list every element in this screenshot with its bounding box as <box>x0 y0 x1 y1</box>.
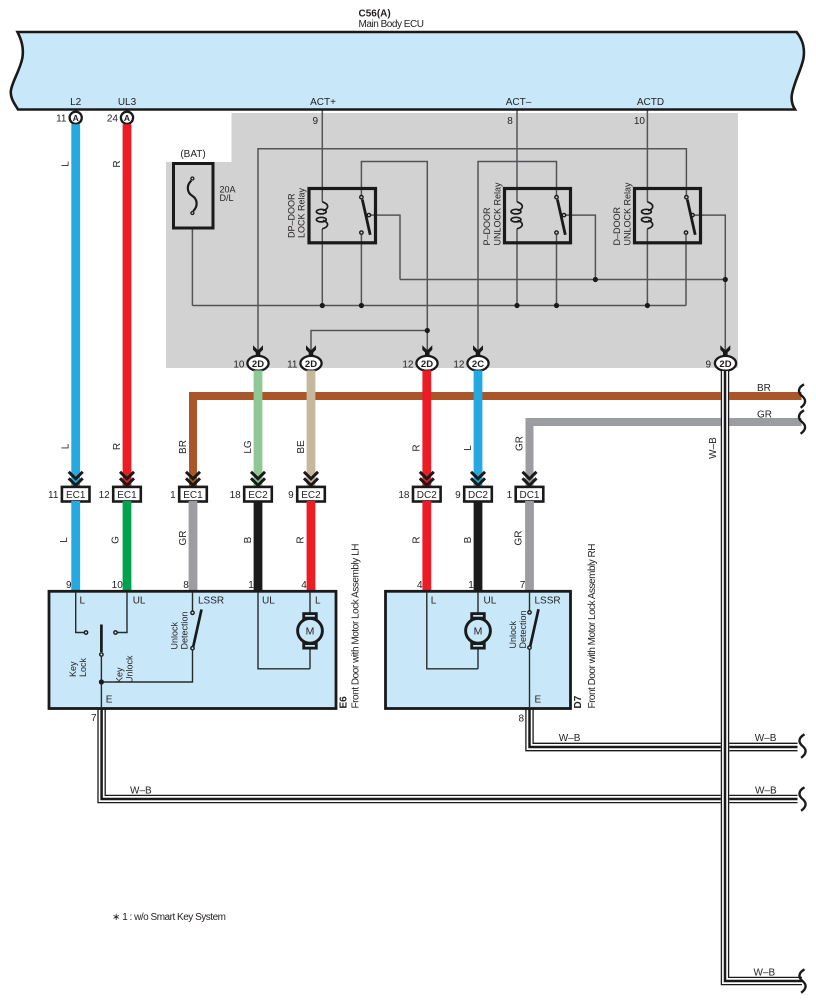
wire R red lower right <box>422 501 431 592</box>
svg-text:BE: BE <box>296 440 307 454</box>
wire G green lower <box>123 501 132 592</box>
svg-text:W–B: W–B <box>708 437 719 459</box>
wire LG (10 2D to EC2) <box>254 370 263 487</box>
arrow EC1 pin12 <box>120 472 134 486</box>
svg-text:LOCK Relay: LOCK Relay <box>296 187 306 238</box>
connector A circle pin 24 <box>121 112 133 124</box>
wire R red (12 2D to DC2) <box>422 370 431 487</box>
svg-text:R: R <box>112 160 123 167</box>
svg-text:DC1: DC1 <box>519 490 539 501</box>
svg-text:UL3: UL3 <box>118 97 137 108</box>
svg-text:DC2: DC2 <box>468 490 488 501</box>
wire DP bottom contact to battery bus <box>360 235 362 306</box>
svg-text:GR: GR <box>514 531 525 546</box>
relay P fixed contact top <box>555 196 558 199</box>
svg-text:18: 18 <box>398 490 410 501</box>
motor M D7 <box>466 618 491 643</box>
svg-text:A: A <box>73 113 79 123</box>
svg-text:M: M <box>306 626 315 638</box>
svg-text:DP–DOOR: DP–DOOR <box>287 193 297 238</box>
svg-text:W–B: W–B <box>755 733 777 744</box>
motor M E6 <box>298 618 323 643</box>
svg-text:EC1: EC1 <box>117 490 137 501</box>
svg-text:UL: UL <box>262 596 275 607</box>
relay D coil <box>642 202 653 229</box>
relay D fixed contact top <box>685 196 688 199</box>
connector box 9 DC2 <box>464 487 492 502</box>
relay P-DOOR UNLOCK Relay box <box>505 189 571 243</box>
svg-text:Unlock: Unlock <box>125 655 135 683</box>
wire GR gray lower right <box>525 501 534 592</box>
wire BR brown harness <box>193 396 802 487</box>
svg-text:4: 4 <box>301 580 307 591</box>
svg-text:LSSR: LSSR <box>535 596 561 607</box>
E6 unlock detection blade <box>193 610 201 647</box>
connector box 11 EC1 <box>62 487 90 502</box>
arrow EC1 pin1 <box>186 472 200 486</box>
svg-text:ACT–: ACT– <box>506 97 532 108</box>
svg-text:L: L <box>61 443 72 449</box>
svg-text:GR: GR <box>514 436 525 451</box>
relay DP fixed contact top <box>360 196 363 199</box>
wire ACTD pin10 to D relay coil <box>646 110 648 202</box>
wire DP movable contact to common bus <box>371 215 400 279</box>
svg-text:B: B <box>243 536 254 543</box>
arrow DC1 pin1 <box>523 472 537 486</box>
svg-text:7: 7 <box>91 713 97 724</box>
D7 unlock detection contacts <box>528 611 531 614</box>
svg-text:EC1: EC1 <box>183 490 203 501</box>
svg-text:(BAT): (BAT) <box>180 149 205 160</box>
relay D-DOOR UNLOCK Relay box <box>635 189 701 243</box>
wire ACT+ pin9 to DP relay coil <box>321 110 323 202</box>
wire L blue lower <box>71 501 80 592</box>
gray relay block background <box>166 113 738 368</box>
svg-text:11: 11 <box>56 114 67 125</box>
connector box 18 EC2 <box>244 487 272 502</box>
svg-text:ACTD: ACTD <box>637 97 664 108</box>
wire branch to 11 2D <box>311 331 427 355</box>
svg-text:10: 10 <box>634 116 646 127</box>
svg-text:12: 12 <box>99 490 111 501</box>
svg-text:C56(A): C56(A) <box>359 9 391 20</box>
svg-text:P–DOOR: P–DOOR <box>482 207 492 246</box>
svg-text:D–DOOR: D–DOOR <box>612 206 622 245</box>
E6 unlock detection contacts <box>191 611 194 614</box>
break squiggle GR <box>799 410 805 433</box>
wire L blue (12 2C to DC2) <box>474 370 483 487</box>
fuse 20A D/L box <box>174 164 214 229</box>
wire W-B from 9 2D down (vertical, over crossings) <box>721 370 802 984</box>
wire B black lower <box>254 501 263 592</box>
connector A circle pin 11 <box>70 112 82 124</box>
E6 key unlock contact <box>114 631 117 634</box>
svg-text:2D: 2D <box>719 359 731 370</box>
wire P bottom contact to battery bus <box>556 235 558 306</box>
E6 key switch blade <box>100 625 103 653</box>
wire D coil bottom to battery bus <box>646 229 648 306</box>
relay P coil <box>511 202 522 229</box>
assembly E6 Front Door with Motor Lock Assembly LH box <box>49 591 336 708</box>
svg-text:8: 8 <box>507 116 513 127</box>
wire GR gray lower <box>189 501 198 592</box>
svg-text:BR: BR <box>178 440 189 454</box>
svg-text:1: 1 <box>170 490 176 501</box>
fuse element <box>191 177 194 180</box>
D7 unlock detection blade <box>530 609 538 646</box>
svg-text:4: 4 <box>417 580 423 591</box>
svg-text:E6: E6 <box>339 696 350 709</box>
svg-text:9: 9 <box>705 359 711 370</box>
svg-text:Lock: Lock <box>78 657 88 677</box>
svg-text:DC2: DC2 <box>417 490 437 501</box>
svg-text:11: 11 <box>287 359 298 370</box>
svg-text:R: R <box>296 536 307 543</box>
relay D movable contact <box>691 213 694 216</box>
relay DP movable contact <box>367 213 370 216</box>
connector 9 2D <box>705 345 736 370</box>
svg-text:Unlock: Unlock <box>170 621 180 649</box>
connector 12 2C <box>453 345 488 370</box>
connector 12 2D <box>402 345 437 370</box>
svg-text:2D: 2D <box>305 359 317 370</box>
relay DP coil <box>316 202 327 229</box>
wire W-B from D7 pin 8 <box>526 709 798 751</box>
wire common bus <box>400 279 725 281</box>
svg-text:EC1: EC1 <box>66 490 86 501</box>
svg-text:W–B: W–B <box>559 733 581 744</box>
node E6 junction <box>99 679 104 684</box>
wire L blue (pin 11 to EC1) <box>71 124 80 487</box>
svg-text:2D: 2D <box>252 359 264 370</box>
E6 key switch pivot <box>100 653 103 656</box>
svg-text:Key: Key <box>68 661 78 677</box>
svg-text:7: 7 <box>520 580 526 591</box>
svg-text:Detection: Detection <box>518 610 528 648</box>
svg-text:L: L <box>61 161 72 167</box>
svg-text:L: L <box>80 596 86 607</box>
wire W-B from E6 pin 7 <box>98 709 798 803</box>
node junction DP bottom contact / battery bus <box>359 303 364 308</box>
break squiggle W-B D7 line <box>799 734 805 757</box>
svg-text:GR: GR <box>178 531 189 546</box>
svg-text:10: 10 <box>233 359 245 370</box>
svg-text:8: 8 <box>518 713 524 724</box>
wire DP top contact to 12 2D <box>361 162 427 355</box>
svg-text:1: 1 <box>468 580 474 591</box>
ECU C56(A) Main Body ECU band <box>11 32 804 110</box>
svg-text:Key: Key <box>115 667 125 683</box>
svg-text:24: 24 <box>107 114 119 125</box>
wire D movable contact to 9 2D <box>695 215 726 354</box>
arrow EC2 pin18 <box>251 472 265 486</box>
svg-text:1: 1 <box>248 580 254 591</box>
E6 motor wiring <box>258 592 310 669</box>
svg-text:L: L <box>463 445 474 451</box>
svg-text:BR: BR <box>757 383 771 394</box>
arrow DC2 pin18 <box>420 472 434 486</box>
svg-text:GR: GR <box>757 410 772 421</box>
svg-text:EC2: EC2 <box>301 490 321 501</box>
assembly D7 Front Door with Motor Lock Assembly RH box <box>386 591 571 708</box>
svg-text:EC2: EC2 <box>248 490 268 501</box>
E6 key lock contact <box>84 631 87 634</box>
svg-text:A: A <box>124 113 130 123</box>
arrow EC2 pin9 <box>304 472 318 486</box>
svg-text:UL: UL <box>484 596 497 607</box>
svg-text:G: G <box>111 536 122 544</box>
wire GR gray harness <box>530 422 802 487</box>
wire DP coil bottom to battery bus <box>321 229 323 306</box>
node junction DP coil / battery bus <box>320 303 325 308</box>
E6 key lock switch wiring <box>76 592 193 709</box>
node junction P movable / common bus <box>593 277 598 282</box>
wire R red (pin 24 to EC1) <box>123 124 132 487</box>
svg-text:9: 9 <box>288 490 294 501</box>
relay P movable contact <box>562 213 565 216</box>
svg-text:Detection: Detection <box>180 611 190 649</box>
svg-text:D/L: D/L <box>220 193 234 203</box>
svg-text:8: 8 <box>183 580 189 591</box>
svg-text:W–B: W–B <box>754 968 776 979</box>
wire P top contact to 12 2C <box>478 162 557 355</box>
D7 unlock detection wiring <box>529 592 531 709</box>
svg-text:9: 9 <box>455 490 461 501</box>
wire battery bus <box>192 305 686 307</box>
svg-text:L2: L2 <box>70 97 82 108</box>
svg-text:LSSR: LSSR <box>198 596 224 607</box>
node junction P coil / battery bus <box>514 303 519 308</box>
relay P blade <box>557 200 565 235</box>
D7 motor wiring <box>427 592 478 669</box>
relay D fixed contact bottom <box>684 231 687 234</box>
relay P fixed contact bottom <box>555 231 558 234</box>
connector box 1 DC1 <box>516 487 544 502</box>
arrow EC1 pin11 <box>69 472 83 486</box>
svg-text:LG: LG <box>243 440 254 454</box>
arrow DC2 pin9 <box>471 472 485 486</box>
connector box 1 EC1 <box>179 487 207 502</box>
svg-text:L: L <box>315 596 321 607</box>
break squiggle W-B bottom <box>799 969 805 992</box>
svg-text:2D: 2D <box>421 359 433 370</box>
svg-text:1: 1 <box>507 490 513 501</box>
svg-text:E: E <box>106 695 113 706</box>
wire fuse to battery bus <box>191 229 193 306</box>
svg-text:Front Door with Motor Lock Ass: Front Door with Motor Lock Assembly RH <box>587 544 598 709</box>
svg-text:W–B: W–B <box>130 785 152 796</box>
svg-text:M: M <box>474 626 483 638</box>
wire BE (11 2D to EC2) <box>307 370 316 487</box>
svg-text:L: L <box>59 537 70 543</box>
svg-text:E: E <box>535 695 542 706</box>
svg-text:B: B <box>463 536 474 543</box>
svg-text:2C: 2C <box>472 359 484 370</box>
node junction P bottom contact / battery bus <box>554 303 559 308</box>
svg-text:Front Door with Motor Lock Ass: Front Door with Motor Lock Assembly LH <box>351 544 362 709</box>
wire D bottom contact to battery bus <box>685 235 687 306</box>
svg-text:R: R <box>112 443 123 450</box>
connector box 12 EC1 <box>113 487 141 502</box>
svg-text:W–B: W–B <box>755 785 777 796</box>
svg-text:12: 12 <box>453 359 465 370</box>
connector box 18 DC2 <box>413 487 441 502</box>
svg-text:D7: D7 <box>573 695 584 708</box>
break squiggle W-B E6 line <box>799 787 805 810</box>
svg-text:UL: UL <box>133 596 146 607</box>
wire P coil bottom to battery bus <box>516 229 518 306</box>
svg-text:L: L <box>431 596 437 607</box>
node junction D movable / common bus <box>723 277 728 282</box>
connector 10 2D <box>233 345 268 370</box>
wire ACT- pin8 to P relay coil <box>516 110 518 202</box>
relay DP blade <box>362 200 370 235</box>
wire R red lower <box>307 501 316 592</box>
connector box 9 EC2 <box>297 487 325 502</box>
node junction D coil / battery bus <box>645 303 650 308</box>
relay DP-DOOR LOCK Relay box <box>309 189 376 243</box>
wire B black lower right <box>474 501 483 592</box>
svg-text:Main Body ECU: Main Body ECU <box>359 19 425 30</box>
connector arrows EC/DC row <box>69 472 537 486</box>
svg-text:18: 18 <box>230 490 242 501</box>
wire bus top (10 2D to D relay top contact) <box>258 149 686 354</box>
svg-text:9: 9 <box>312 116 318 127</box>
svg-text:ACT+: ACT+ <box>310 97 336 108</box>
wire P movable contact to common bus <box>566 215 595 279</box>
svg-text:UNLOCK Relay: UNLOCK Relay <box>622 182 632 246</box>
relay DP fixed contact bottom <box>360 231 363 234</box>
svg-text:12: 12 <box>402 359 414 370</box>
svg-text:R: R <box>412 536 423 543</box>
svg-text:UNLOCK Relay: UNLOCK Relay <box>492 182 502 246</box>
relay D blade <box>687 200 695 235</box>
connector 11 2D <box>287 345 321 370</box>
svg-text:9: 9 <box>66 580 72 591</box>
svg-text:11: 11 <box>48 490 59 501</box>
break squiggle BR <box>799 384 805 407</box>
svg-text:Unlock: Unlock <box>508 620 518 648</box>
node junction 11 2D branch <box>425 328 430 333</box>
svg-text:∗ 1 : w/o Smart Key System: ∗ 1 : w/o Smart Key System <box>112 912 226 923</box>
svg-text:R: R <box>412 444 423 451</box>
svg-text:10: 10 <box>112 580 124 591</box>
